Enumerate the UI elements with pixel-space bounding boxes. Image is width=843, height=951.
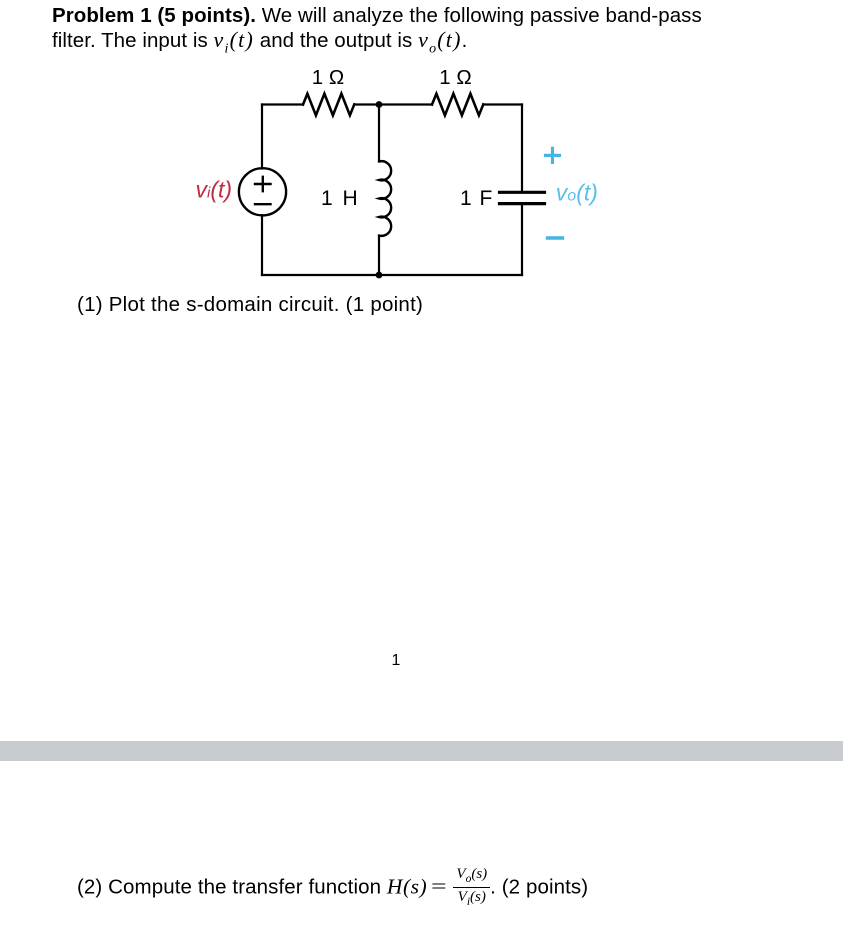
node A junction dot (top)	[376, 101, 383, 108]
wire: top-left segment from source top to R1	[262, 103, 303, 105]
label 1 Ohm for R1	[312, 66, 344, 89]
minus mark inside source	[255, 203, 271, 205]
page number	[380, 651, 412, 671]
junction dot (bottom, node B)	[376, 272, 383, 279]
question 2 with transfer function	[77, 872, 588, 914]
plus mark inside source	[255, 177, 271, 191]
question 1	[77, 293, 423, 317]
wire: middle branch lower (inductor to bottom rail)	[378, 236, 380, 276]
wire: top-middle segment from R1 through node A to R2	[354, 103, 432, 105]
label vi(t)	[196, 177, 233, 203]
label 1 Ohm for R2	[439, 66, 471, 89]
inductor L1 (1 H)	[379, 161, 391, 236]
label vo(t)	[556, 180, 598, 206]
resistor R1 (1 ohm, left)	[303, 94, 354, 116]
wire: top-right segment from R2 to right branch	[483, 103, 522, 105]
output plus sign (cyan)	[546, 148, 560, 162]
svg-text:vi(t): vi(t)	[196, 177, 233, 203]
svg-text:1 H: 1 H	[321, 187, 358, 210]
label 1 H	[321, 187, 358, 210]
wire: left branch lower (source to bottom wire)	[261, 215, 263, 275]
wire: right branch upper (top wire down to capacitor)	[521, 105, 523, 191]
wire: middle branch upper (node A down to inductor)	[378, 105, 380, 162]
svg-text:vo(t): vo(t)	[556, 180, 598, 206]
voltage source VS (vi) circle	[239, 168, 286, 215]
svg-text:1 Ω: 1 Ω	[439, 66, 471, 89]
svg-text:1 Ω: 1 Ω	[312, 66, 344, 89]
wire: right branch lower (capacitor to bottom rail)	[521, 205, 523, 275]
capacitor C1 (1 F) plates	[500, 192, 545, 203]
problem statement paragraph	[52, 4, 702, 61]
wire: left branch upper (top wire down to source)	[261, 105, 263, 169]
resistor R2 (1 ohm, right)	[432, 94, 483, 116]
svg-text:1 F: 1 F	[460, 187, 492, 210]
page separator band	[0, 741, 843, 761]
output minus sign (cyan)	[548, 236, 563, 239]
label 1 F	[460, 187, 492, 210]
wire: bottom rail	[262, 274, 522, 276]
